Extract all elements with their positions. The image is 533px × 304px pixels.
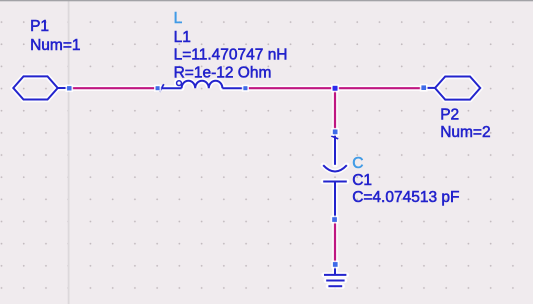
svg-text:C=4.074513 pF: C=4.074513 pF [352, 189, 459, 206]
svg-text:C: C [352, 155, 363, 172]
svg-text:R=1e-12 Ohm: R=1e-12 Ohm [174, 65, 272, 82]
svg-text:P2: P2 [440, 107, 459, 124]
svg-text:Num=2: Num=2 [440, 124, 490, 141]
svg-text:L=11.470747 nH: L=11.470747 nH [174, 46, 288, 63]
svg-text:Num=1: Num=1 [30, 37, 80, 54]
svg-text:C1: C1 [352, 172, 372, 189]
svg-text:P1: P1 [30, 18, 49, 35]
svg-text:L1: L1 [174, 29, 191, 46]
svg-text:L: L [174, 10, 183, 27]
